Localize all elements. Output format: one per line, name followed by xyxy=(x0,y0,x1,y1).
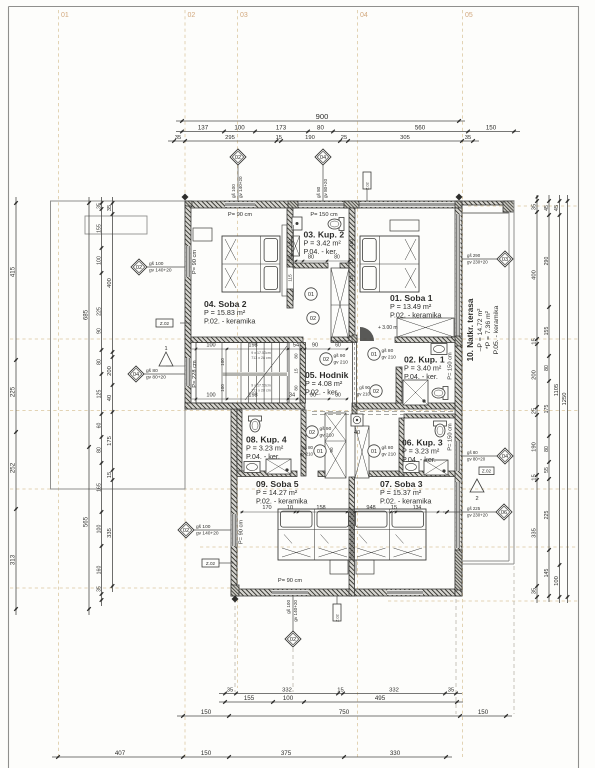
svg-text:02: 02 xyxy=(373,389,379,395)
triangle marker 2 right xyxy=(470,479,484,502)
interior dim vertical Soba1 left xyxy=(349,225,355,300)
svg-text:150: 150 xyxy=(486,125,497,132)
window left P=90 Soba 5 xyxy=(232,514,237,546)
svg-text:gš 80: gš 80 xyxy=(382,445,394,451)
svg-text:02: 02 xyxy=(323,357,329,363)
grid axis C horizontal xyxy=(10,410,578,412)
svg-text:04: 04 xyxy=(320,155,326,161)
svg-text:–P = 14.72 m²: –P = 14.72 m² xyxy=(477,308,484,351)
svg-text:150: 150 xyxy=(201,750,212,757)
svg-text:gv 140+20: gv 140+20 xyxy=(196,530,219,536)
door marker 01 upper xyxy=(305,288,317,300)
door swing Soba 1 xyxy=(360,327,374,341)
room label 06 Kup 3 xyxy=(402,438,443,464)
interior dim vertical Soba2 right xyxy=(288,225,294,300)
svg-text:06: 06 xyxy=(501,510,507,516)
svg-text:80: 80 xyxy=(317,125,324,132)
dimension chain top row details xyxy=(176,125,520,134)
svg-text:10. Natkr. terasa: 10. Natkr. terasa xyxy=(466,298,475,361)
svg-text:80: 80 xyxy=(334,255,340,261)
terrace boundary right xyxy=(509,201,514,564)
room label 08 Kup 4 xyxy=(246,435,287,461)
grid axis 02 vertical xyxy=(184,10,186,757)
svg-text:gv 80+20: gv 80+20 xyxy=(323,179,328,198)
vent marker Z.02 top xyxy=(363,172,371,201)
dimension chain right rooms xyxy=(531,195,538,603)
wall exterior left upper xyxy=(185,206,191,409)
svg-text:P.02. - keramika: P.02. - keramika xyxy=(380,496,431,505)
svg-text:400: 400 xyxy=(531,270,537,280)
wall pier top middle-1 xyxy=(288,201,298,208)
wall interior Kup4 bottom jamb xyxy=(318,471,325,477)
svg-text:35: 35 xyxy=(448,688,454,694)
corner tick bottom-left xyxy=(232,596,239,603)
svg-text:150: 150 xyxy=(201,709,212,716)
wall interior Kup4 right xyxy=(301,410,306,476)
window top P=150 Kup 2 xyxy=(298,202,344,207)
wall interior Kup3 left xyxy=(399,418,404,476)
svg-text:100: 100 xyxy=(234,125,245,132)
svg-text:gš 100: gš 100 xyxy=(286,600,291,614)
grid axis A horizontal xyxy=(468,205,578,207)
terrace parapet inner line xyxy=(462,212,509,214)
svg-text:15: 15 xyxy=(531,338,537,344)
svg-text:1: 1 xyxy=(164,346,167,352)
interior dim row below stairs xyxy=(191,393,348,401)
svg-text:04: 04 xyxy=(133,372,139,378)
wall interior below Kup1 xyxy=(352,403,455,409)
svg-text:35: 35 xyxy=(465,135,471,141)
svg-text:P= 150 cm: P= 150 cm xyxy=(310,212,338,218)
svg-text:gv 140+20: gv 140+20 xyxy=(293,600,298,622)
bed Soba 2 xyxy=(222,236,280,292)
svg-text:80: 80 xyxy=(308,255,314,261)
witness line bottom-right corner xyxy=(455,599,457,714)
svg-text:165: 165 xyxy=(96,483,102,492)
vent marker Z.02 right xyxy=(479,467,494,475)
svg-text:160: 160 xyxy=(96,566,102,575)
terrace parapet top xyxy=(462,201,514,205)
svg-text:40: 40 xyxy=(354,430,360,436)
nightstand Soba 5 xyxy=(330,560,348,574)
svg-text:125: 125 xyxy=(96,390,102,399)
svg-text:565: 565 xyxy=(82,516,89,527)
svg-text:*P = 7.36 m²: *P = 7.36 m² xyxy=(485,310,492,349)
grid axis G horizontal xyxy=(388,600,578,602)
svg-text:P.04. - ker.: P.04. - ker. xyxy=(402,455,436,464)
dresser Soba 1 xyxy=(390,220,419,231)
svg-text:+ 3.00 m: + 3.00 m xyxy=(378,325,398,331)
svg-text:gš 290: gš 290 xyxy=(467,253,481,258)
svg-text:gv 230+20: gv 230+20 xyxy=(467,513,488,518)
window right Kup 3 xyxy=(456,441,461,471)
svg-text:gv 210: gv 210 xyxy=(320,432,335,438)
svg-text:80: 80 xyxy=(96,447,102,453)
wall exterior left lower xyxy=(231,409,237,596)
svg-text:Z.02: Z.02 xyxy=(482,469,492,474)
svg-text:175: 175 xyxy=(107,436,113,446)
shower Kup 2 xyxy=(292,217,302,230)
vent marker Z.02 left xyxy=(156,319,191,327)
svg-text:750: 750 xyxy=(339,709,350,716)
window marker D4 left with triangle 1 xyxy=(128,346,185,382)
wall interior Kup4 bottom xyxy=(237,471,297,477)
svg-text:90: 90 xyxy=(310,393,316,399)
svg-text:10: 10 xyxy=(287,505,293,511)
svg-text:35: 35 xyxy=(227,688,233,694)
svg-text:P.04. - ker.: P.04. - ker. xyxy=(246,452,280,461)
grid axis 03 vertical xyxy=(237,10,239,688)
svg-text:02: 02 xyxy=(235,155,241,161)
svg-text:15: 15 xyxy=(349,258,354,264)
dimension chain bottom row 750 xyxy=(177,709,512,718)
svg-text:100: 100 xyxy=(554,576,560,586)
dimension chain right 1105 xyxy=(554,195,561,603)
window marker D2 left xyxy=(131,259,185,275)
svg-text:198: 198 xyxy=(248,393,257,399)
svg-text:55: 55 xyxy=(544,467,550,473)
room label 07 Soba 3 xyxy=(380,479,431,505)
wall pier top-right corner xyxy=(455,201,462,208)
grid axis D horizontal xyxy=(10,488,578,490)
room label 05 Hodnik xyxy=(305,370,349,396)
svg-text:05: 05 xyxy=(465,12,473,19)
svg-text:25: 25 xyxy=(531,408,537,414)
svg-text:560: 560 xyxy=(415,125,426,132)
svg-text:15: 15 xyxy=(288,258,293,264)
grid axis 01 vertical xyxy=(58,10,60,760)
dresser Soba 2 xyxy=(193,228,212,241)
svg-text:170: 170 xyxy=(262,505,271,511)
svg-text:80: 80 xyxy=(544,446,550,452)
svg-text:155: 155 xyxy=(96,224,102,233)
vent marker Z.02 bottom xyxy=(333,596,341,622)
room label 04 Soba 2 xyxy=(204,299,255,325)
svg-text:335: 335 xyxy=(531,528,537,538)
svg-text:407: 407 xyxy=(115,750,126,757)
svg-text:gv 210: gv 210 xyxy=(300,452,314,457)
svg-text:gš 80: gš 80 xyxy=(467,450,478,455)
wall exterior left transition xyxy=(185,403,237,409)
grid axis B horizontal xyxy=(10,338,578,340)
svg-text:158: 158 xyxy=(316,505,325,511)
svg-text:gv 140+20: gv 140+20 xyxy=(238,176,243,198)
shower Kup 1 xyxy=(403,380,428,405)
svg-text:415: 415 xyxy=(9,266,16,277)
bed Soba 3 xyxy=(353,509,426,560)
svg-text:100: 100 xyxy=(283,695,294,702)
window marker D4 right with triangle 2 xyxy=(462,448,513,464)
plot small rectangle top-left xyxy=(85,216,147,234)
svg-text:137: 137 xyxy=(198,125,209,132)
wall pier top-left corner xyxy=(185,201,192,207)
svg-text:25: 25 xyxy=(341,135,347,141)
shower Kup 4 xyxy=(266,459,291,474)
svg-text:gv 210: gv 210 xyxy=(357,392,371,397)
svg-text:gš 100: gš 100 xyxy=(149,261,164,267)
svg-text:02: 02 xyxy=(188,12,196,19)
svg-text:P.02. - keramika: P.02. - keramika xyxy=(390,310,441,319)
shower Kup 3 xyxy=(424,460,448,475)
wall exterior bottom xyxy=(231,589,462,596)
svg-text:gv 210: gv 210 xyxy=(334,359,349,365)
svg-text:290: 290 xyxy=(544,257,550,266)
dimension chain bottom row site xyxy=(52,750,452,759)
window marker D3 right xyxy=(462,251,513,267)
svg-text:2: 2 xyxy=(475,496,478,502)
svg-text:02: 02 xyxy=(290,637,296,643)
wall interior Soba2-Kup2 vertical xyxy=(287,208,293,267)
terrace boundary bottom xyxy=(462,561,514,564)
corner tick bottom-right right-chain xyxy=(536,196,539,199)
door marker 01 lower corridor left xyxy=(300,445,326,457)
terrace parapet corner block xyxy=(503,201,514,212)
door marker 01 lower corridor right xyxy=(368,445,396,458)
svg-text:gš 225: gš 225 xyxy=(467,506,481,511)
corner tick top-left xyxy=(182,194,189,201)
door marker 02 corridor xyxy=(320,353,348,366)
svg-text:Z.02: Z.02 xyxy=(336,614,340,622)
svg-text:02: 02 xyxy=(309,430,315,436)
svg-text:P= 90 cm: P= 90 cm xyxy=(239,520,245,544)
svg-text:90: 90 xyxy=(312,343,318,349)
interior dim row Soba5-Soba3 xyxy=(240,505,444,513)
svg-text:P.04. - ker.: P.04. - ker. xyxy=(404,372,438,381)
svg-text:15: 15 xyxy=(107,472,113,478)
svg-text:40: 40 xyxy=(107,395,113,401)
wall interior Kup2 bottom left xyxy=(293,263,328,268)
svg-text:80: 80 xyxy=(294,353,299,359)
svg-text:375: 375 xyxy=(281,750,292,757)
svg-text:15: 15 xyxy=(531,474,537,480)
svg-text:190: 190 xyxy=(305,135,315,141)
room label 02 Kup 1 xyxy=(404,355,445,381)
svg-text:01: 01 xyxy=(371,352,377,358)
svg-text:155: 155 xyxy=(544,327,550,336)
wall interior Soba5-Soba3 spine xyxy=(349,477,355,596)
svg-text:35: 35 xyxy=(531,588,537,594)
svg-text:60: 60 xyxy=(335,343,341,349)
svg-text:1250: 1250 xyxy=(562,393,568,406)
svg-text:15: 15 xyxy=(294,368,299,374)
toilet Kup 4 xyxy=(249,416,262,432)
svg-text:gš 100: gš 100 xyxy=(231,184,236,198)
svg-text:100: 100 xyxy=(206,343,215,349)
wall interior Soba2 door jamb xyxy=(287,289,293,308)
svg-text:gv 210: gv 210 xyxy=(382,451,397,457)
closet strip Soba 2 xyxy=(282,225,287,296)
window-door left P=80 xyxy=(186,358,191,386)
svg-text:115: 115 xyxy=(288,274,293,282)
room label 03 Kup 2 xyxy=(304,230,345,256)
building interior walls group xyxy=(185,208,455,596)
window right sliding door Soba 1 xyxy=(456,214,461,336)
grid axis 05 vertical xyxy=(462,10,464,757)
vent marker Z.02 left lower xyxy=(202,559,234,567)
svg-text:03: 03 xyxy=(240,12,248,19)
svg-text:45: 45 xyxy=(544,205,550,211)
dimension chain left 685-565 xyxy=(82,197,90,615)
svg-text:175: 175 xyxy=(544,405,550,414)
wall interior corridor top xyxy=(331,337,357,343)
svg-text:100: 100 xyxy=(206,393,215,399)
window top P=90 Soba 2 xyxy=(225,202,255,207)
svg-text:225: 225 xyxy=(96,307,102,316)
wall pier bottom-left corner xyxy=(231,585,239,596)
svg-text:P= 150 cm: P= 150 cm xyxy=(448,423,454,451)
svg-text:15: 15 xyxy=(276,135,282,141)
wall interior Kup3 bottom xyxy=(369,471,455,477)
wall interior below stairs xyxy=(185,403,305,409)
svg-text:04: 04 xyxy=(502,454,508,460)
wall interior Kup2-Soba1 vertical xyxy=(349,208,355,341)
building exterior walls group xyxy=(185,201,514,596)
grid axis 04 vertical xyxy=(357,10,359,757)
wall interior Soba1 bottom xyxy=(395,337,455,343)
svg-text:80: 80 xyxy=(544,365,550,371)
room label 01 Soba 1 xyxy=(390,293,441,319)
svg-text:54: 54 xyxy=(293,343,299,349)
svg-text:495: 495 xyxy=(375,695,386,702)
washing machine corridor xyxy=(351,414,363,426)
sink Kup 1 xyxy=(431,344,447,355)
sink Kup 4 xyxy=(244,462,260,473)
interior dim vertical stairs left xyxy=(220,349,226,399)
svg-text:90: 90 xyxy=(329,447,334,453)
svg-text:134: 134 xyxy=(413,505,422,511)
toilet Kup 3 xyxy=(434,421,447,437)
svg-text:01: 01 xyxy=(308,292,314,298)
svg-text:gv 80+20: gv 80+20 xyxy=(146,374,166,380)
svg-text:gv 230+20: gv 230+20 xyxy=(467,260,488,265)
svg-text:180: 180 xyxy=(288,239,293,247)
svg-text:100: 100 xyxy=(96,256,102,265)
window marker D2 left lower xyxy=(178,522,231,538)
svg-text:35: 35 xyxy=(175,135,181,141)
svg-text:02: 02 xyxy=(310,316,316,322)
closet corridor lower right xyxy=(355,426,369,478)
svg-text:35: 35 xyxy=(96,586,102,592)
svg-text:P.05. - keramika: P.05. - keramika xyxy=(493,305,500,354)
svg-text:Z.02: Z.02 xyxy=(206,561,216,566)
svg-text:45: 45 xyxy=(554,205,560,211)
svg-text:200: 200 xyxy=(107,366,113,376)
window marker D2 bottom xyxy=(285,596,301,647)
witness line terrace right edge xyxy=(513,566,515,714)
svg-text:02: 02 xyxy=(136,265,142,271)
svg-text:34: 34 xyxy=(289,393,295,399)
window left P=90 Soba 2 xyxy=(186,246,191,277)
sink Kup 3 xyxy=(403,462,419,473)
svg-text:15: 15 xyxy=(391,505,397,511)
svg-text:35: 35 xyxy=(96,203,102,209)
svg-text:200: 200 xyxy=(531,370,537,380)
wall interior Kup2 bottom right xyxy=(340,263,349,268)
svg-text:01: 01 xyxy=(317,449,323,455)
svg-text:gv 210: gv 210 xyxy=(382,354,397,360)
wall exterior top xyxy=(185,201,462,208)
svg-text:180: 180 xyxy=(349,239,354,247)
wall interior Soba2 bottom xyxy=(191,337,303,343)
svg-text:295: 295 xyxy=(225,135,235,141)
window right terrace door Soba 3 xyxy=(456,482,461,548)
interior dim row Kup2 xyxy=(288,255,350,263)
svg-text:gš 100: gš 100 xyxy=(196,524,211,530)
door marker 02 lower corridor xyxy=(306,426,334,439)
window bottom Soba 3 xyxy=(387,590,423,595)
window marker D4 top xyxy=(315,149,331,201)
dimension chain bottom row wall segments xyxy=(219,688,462,696)
svg-text:332: 332 xyxy=(389,688,399,694)
door marker 02 Kup1 xyxy=(357,385,382,397)
svg-text:02: 02 xyxy=(183,528,189,534)
wall pier bottom-right corner xyxy=(455,589,462,596)
svg-text:150: 150 xyxy=(478,709,489,716)
wall interior stair-corridor vertical xyxy=(300,343,306,404)
partition corridor-closet thin xyxy=(352,335,357,414)
svg-text:01: 01 xyxy=(371,449,377,455)
svg-text:Z.02: Z.02 xyxy=(366,182,370,190)
closet corridor lower left xyxy=(325,413,346,478)
svg-text:100: 100 xyxy=(220,384,225,392)
room label 10 Natkr terasa rotated xyxy=(466,298,500,361)
grid axis F horizontal xyxy=(10,587,240,589)
plot rectangle left xyxy=(51,201,186,489)
svg-text:9 x 17.50cm: 9 x 17.50cm xyxy=(251,384,271,388)
window top P=290 Soba 1 xyxy=(359,202,455,207)
corner tick top-right xyxy=(456,194,463,201)
svg-text:60: 60 xyxy=(96,423,102,429)
svg-text:03: 03 xyxy=(502,257,508,263)
svg-text:P.02. - keramika: P.02. - keramika xyxy=(204,316,255,325)
door marker 01 Kup1 xyxy=(368,348,396,361)
svg-text:35: 35 xyxy=(107,205,113,211)
svg-text:115: 115 xyxy=(349,274,354,282)
toilet Kup 1 xyxy=(432,387,448,400)
nightstand Soba 3 xyxy=(356,560,374,574)
cabinet Kup 2 xyxy=(292,236,300,256)
dimension chain top row 900 xyxy=(176,112,465,123)
window bottom P=90 Soba 5 xyxy=(272,590,308,595)
canopy dashed edge above Kup1-Kup3 xyxy=(312,411,455,413)
svg-text:gš 90: gš 90 xyxy=(320,426,332,432)
toilet Kup 2 xyxy=(328,218,344,231)
bed Soba 5 xyxy=(278,509,351,560)
svg-text:332: 332 xyxy=(282,688,292,694)
svg-text:80: 80 xyxy=(294,385,299,391)
dimension chain left rooms xyxy=(107,197,114,592)
wardrobe Soba 1 xyxy=(397,318,454,337)
svg-text:330: 330 xyxy=(390,750,401,757)
wall pier right mid-1 xyxy=(455,336,462,346)
staircase xyxy=(196,343,289,404)
svg-text:gš 80: gš 80 xyxy=(302,445,313,450)
svg-text:01: 01 xyxy=(61,12,69,19)
bed Soba 1 xyxy=(360,236,419,292)
dimension chain left outer xyxy=(9,197,17,615)
wall exterior right xyxy=(455,208,462,596)
dimension chain right 1250 xyxy=(562,195,569,603)
svg-text:P= 90 cm: P= 90 cm xyxy=(192,250,198,274)
svg-text:100: 100 xyxy=(220,358,225,366)
svg-text:198: 198 xyxy=(248,343,257,349)
shaft void Kup2-Soba1 xyxy=(331,268,349,341)
svg-text:225: 225 xyxy=(9,386,16,397)
svg-text:80: 80 xyxy=(335,393,341,399)
dimension chain left details xyxy=(96,197,103,606)
interior dim vertical corridor right xyxy=(294,353,299,391)
svg-text:400: 400 xyxy=(107,278,113,288)
